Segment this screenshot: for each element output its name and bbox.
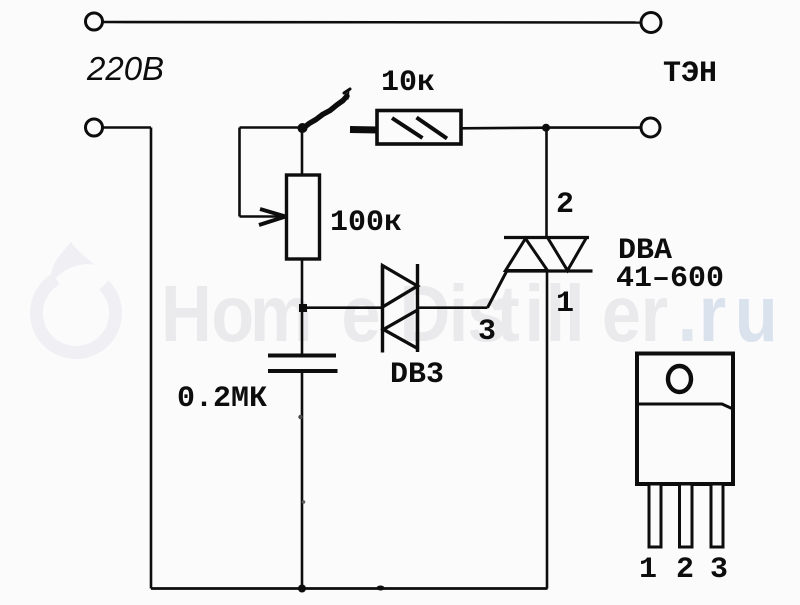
terminal T4 right — [641, 118, 660, 137]
wire node B down to triac — [545, 128, 548, 237]
svg-text:3: 3 — [478, 315, 496, 349]
node B dot — [542, 124, 550, 132]
wire node B to T4 — [546, 126, 640, 129]
svg-text:0.2МК: 0.2МК — [177, 382, 267, 416]
wire node A to diac — [303, 306, 383, 309]
svg-text:1: 1 — [639, 553, 657, 587]
TO-220 leg 3 — [711, 484, 723, 547]
svg-text:1: 1 — [556, 287, 574, 321]
wire top rail — [103, 21, 640, 24]
node dot bottom rail small — [377, 586, 385, 591]
node dot switch pivot — [298, 123, 308, 133]
svg-text:220В: 220В — [86, 50, 164, 87]
triac VS1 bottom bar — [505, 269, 593, 272]
svg-text:DB3: DB3 — [390, 358, 444, 392]
diac bottom triangle — [384, 310, 418, 349]
potentiometer R2 body — [287, 175, 320, 259]
wire R1 to node B — [461, 126, 546, 129]
wire wiper feedback bottom — [240, 215, 284, 218]
wire blemish tick upper — [298, 415, 302, 419]
svg-text:ТЭН: ТЭН — [663, 57, 717, 91]
terminal T2 left — [86, 119, 103, 136]
wire T2 to left rail — [103, 126, 151, 129]
svg-text:41–600: 41–600 — [616, 262, 724, 296]
diac VD1 right bar — [416, 264, 419, 352]
resistor R1 slash 1 — [392, 118, 423, 138]
capacitor C1 top plate — [268, 354, 336, 358]
wire capacitor to bottom rail — [301, 371, 304, 589]
svg-text:3: 3 — [710, 553, 728, 587]
wire wiper feedback left — [238, 128, 241, 217]
wire diac to gate — [418, 306, 488, 309]
resistor R1 body — [377, 111, 461, 145]
triac right triangle — [548, 238, 587, 271]
wire blemish tick lower — [302, 500, 306, 504]
wire left rail — [150, 128, 153, 589]
TO-220 tab line — [637, 404, 733, 409]
wire gate diagonal — [488, 272, 507, 308]
terminal T1 top-left — [86, 13, 103, 30]
switch lever — [301, 96, 347, 130]
terminal T3 top-right — [641, 13, 661, 33]
svg-text:100к: 100к — [330, 206, 402, 240]
diac VD1 left bar — [381, 265, 384, 353]
resistor R1 slash 2 — [417, 118, 448, 139]
triac VS1 top bar — [504, 236, 589, 239]
wire bottom rail — [151, 587, 548, 590]
triac left triangle — [506, 239, 548, 271]
diac top triangle — [383, 266, 418, 308]
capacitor C1 bottom plate — [268, 369, 338, 373]
TO-220 package body — [637, 354, 733, 485]
watermark logo drop — [36, 242, 115, 353]
wire pot bottom to node A — [301, 259, 304, 308]
wire node to pot top — [301, 128, 304, 175]
wire node A down to capacitor — [301, 308, 304, 355]
resistor R1 lead stub — [350, 126, 378, 134]
svg-text:2: 2 — [556, 188, 574, 222]
TO-220 leg 2 — [680, 484, 693, 547]
wire triac anode down — [546, 271, 549, 589]
TO-220 leg 1 — [649, 484, 661, 547]
node dot bottom rail left — [298, 585, 306, 593]
switch tip arrow — [340, 91, 350, 101]
node A dot — [299, 304, 307, 312]
svg-text:2: 2 — [676, 553, 694, 587]
svg-text:10к: 10к — [381, 66, 435, 100]
wire wiper feedback top — [240, 126, 303, 129]
wiper arrowhead — [260, 209, 286, 217]
TO-220 mounting hole — [668, 366, 691, 392]
